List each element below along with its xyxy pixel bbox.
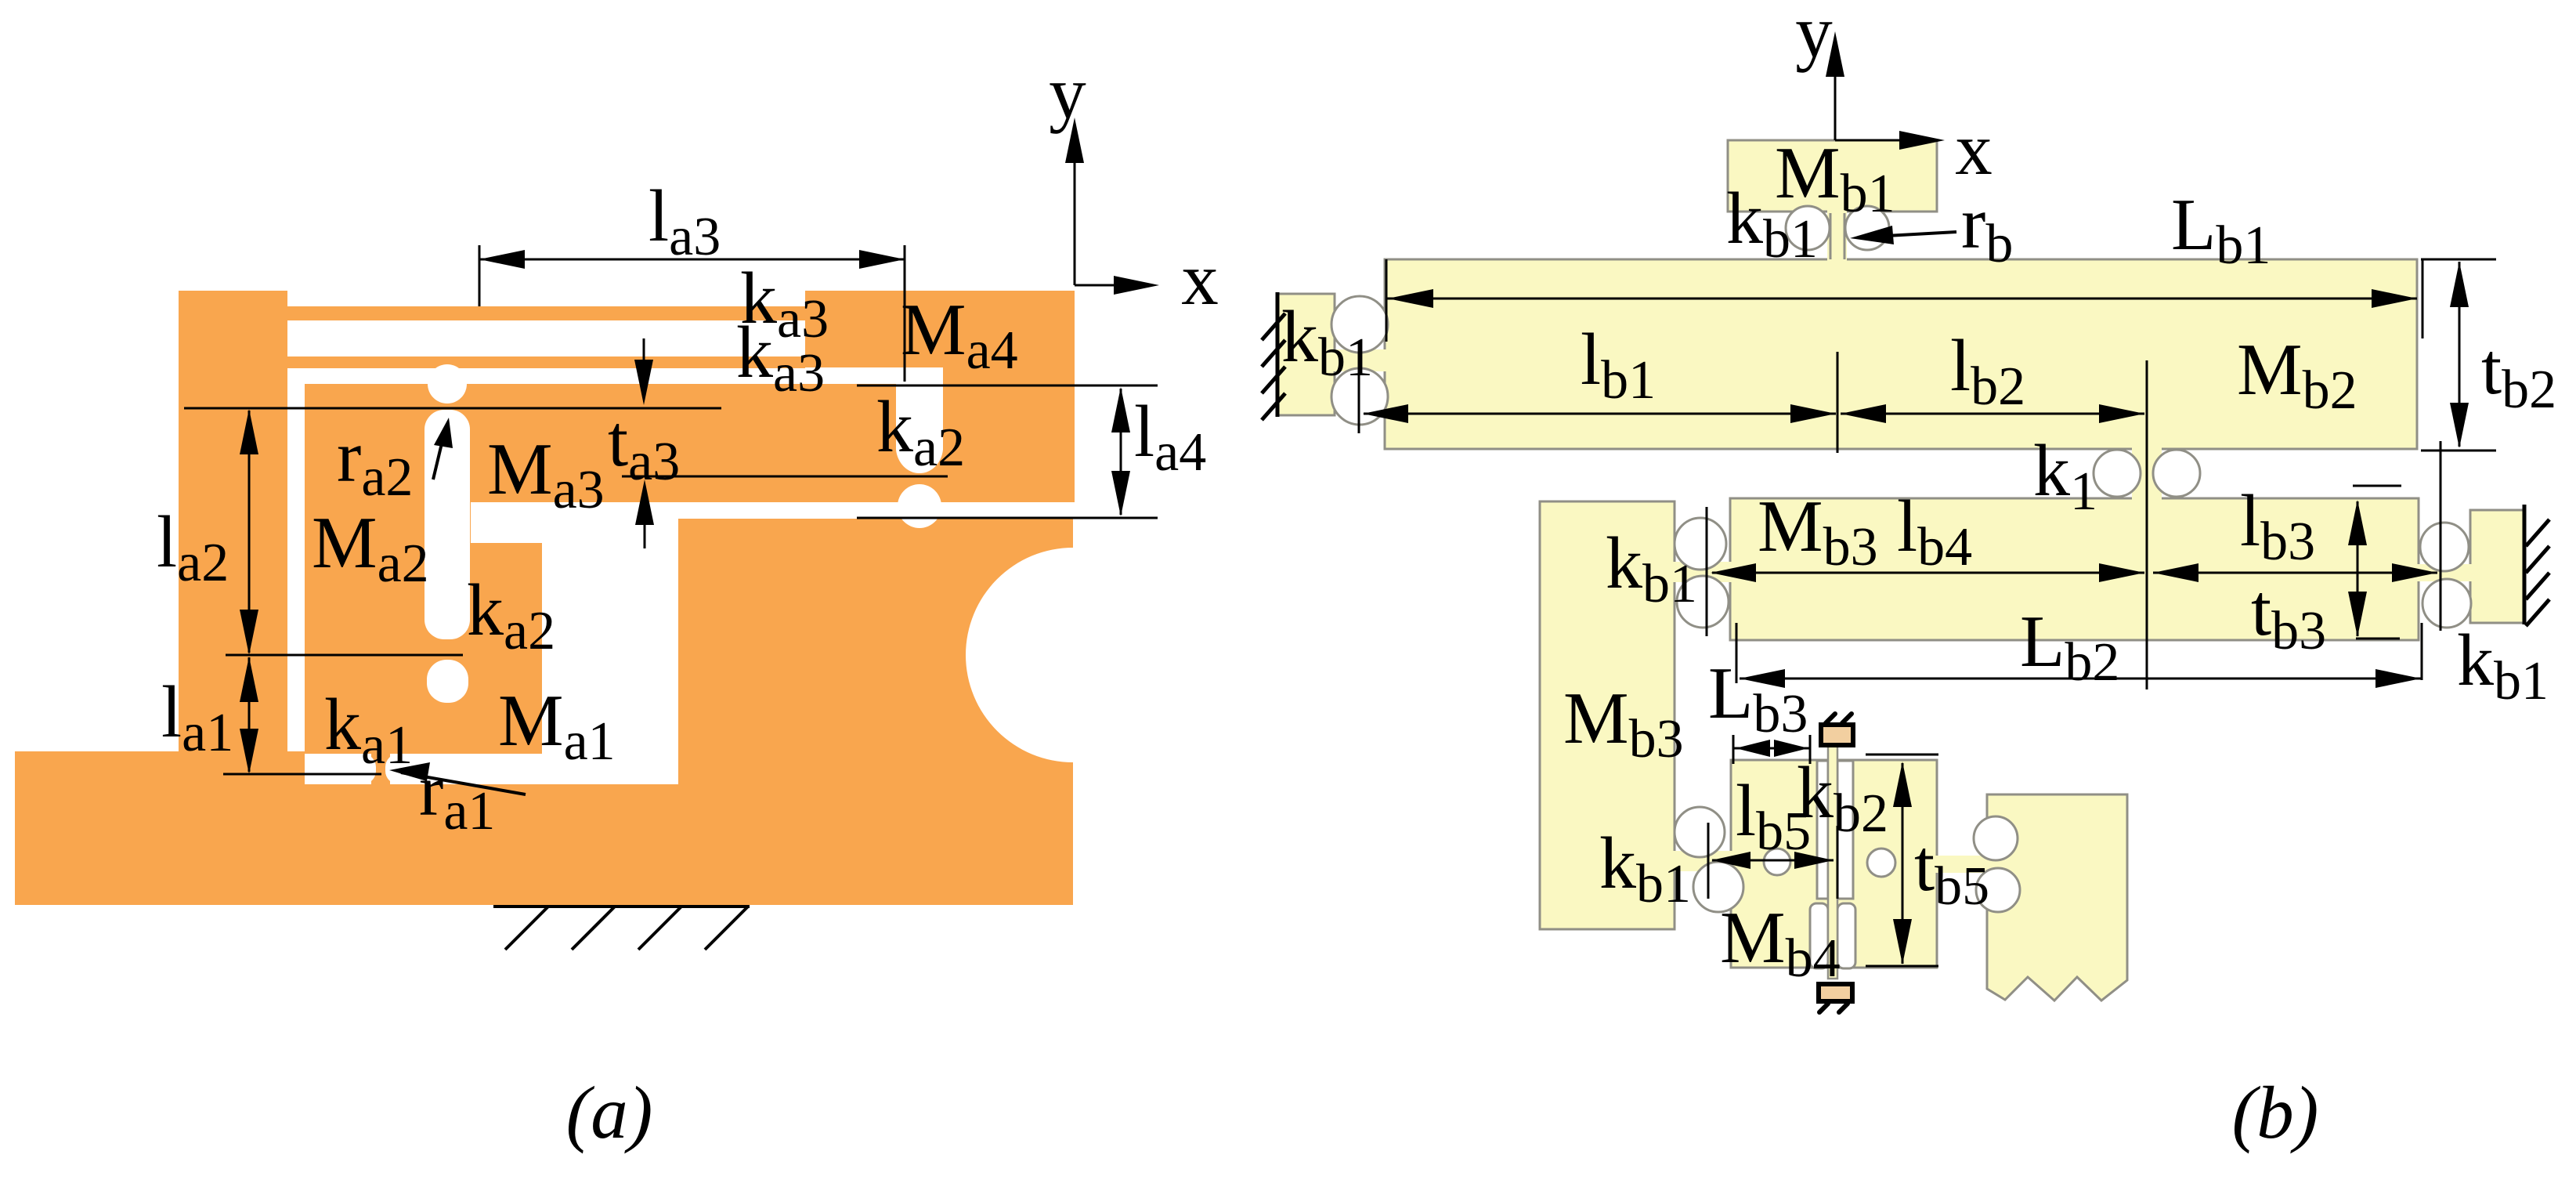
dimension t_b5 xyxy=(1866,754,1938,756)
mass M_a4 right leg xyxy=(943,367,1075,502)
left fixed bar (ground post) xyxy=(179,291,287,786)
flexure k_a2 upper bump circle xyxy=(898,484,941,528)
neck beam to right anchor (k_b1) xyxy=(2415,564,2473,581)
lower blocks M_b4 / t_b5 xyxy=(1731,760,1937,968)
fillet circles column-block neck xyxy=(1675,807,1725,857)
fillet circles column-beam neck xyxy=(1675,518,1726,570)
leaf spring k_a3 upper strip xyxy=(287,306,805,320)
fillet circles right anchor neck xyxy=(2420,523,2469,571)
lower beam M_b3 xyxy=(1730,498,2419,640)
right fixed anchor xyxy=(2470,510,2524,623)
neck column to block M_b4 (k_b1) xyxy=(1671,851,1734,871)
neck k_1 between beams xyxy=(2132,446,2162,501)
dimension t_a3 xyxy=(643,338,645,396)
gap above mass M_a1 column xyxy=(471,519,542,543)
svg-text:y: y xyxy=(1795,0,1833,73)
flexure k_a2 lower stadium slot xyxy=(427,660,468,703)
dimension t_b2 xyxy=(2421,259,2496,261)
svg-text:x: x xyxy=(1955,107,1993,190)
svg-text:y: y xyxy=(1049,51,1086,134)
mass M_b1 input block xyxy=(1728,140,1937,212)
flexure k_a1 neck xyxy=(371,749,390,788)
dimension L_b2 xyxy=(1740,678,2421,680)
left anchor ground hatching xyxy=(1276,292,1280,417)
dimension l_a2 xyxy=(248,411,251,653)
dimension l_b2 xyxy=(1841,413,2144,415)
beam mass M_b2 xyxy=(1385,259,2417,449)
neck column to lower beam (k_b1) xyxy=(1671,562,1733,582)
dimension l_a1 xyxy=(248,657,251,772)
ground right block xyxy=(678,519,1073,784)
dimension l_a3 xyxy=(479,259,905,261)
zigzag torn block xyxy=(1987,794,2127,1001)
combined block M_a2 / M_a3 / M_a1 xyxy=(305,384,943,754)
flexure k_a1 right slot xyxy=(385,754,548,784)
dimension l_a4 xyxy=(857,385,1158,387)
coordinate axes of figure (a) xyxy=(1074,133,1076,285)
leaf spring k_b2 xyxy=(1828,740,1837,979)
svg-text:(b): (b) xyxy=(2232,1071,2319,1154)
ground hatching under base xyxy=(493,905,750,908)
neck t_b5 block to zigzag block xyxy=(1934,856,1993,873)
ground base left raised step xyxy=(15,751,305,787)
gap under beam M_a3 xyxy=(471,502,1075,519)
gap right of leaf k_b2 xyxy=(1837,761,1853,899)
big white notch between M_a1 and ground right block xyxy=(542,519,678,784)
coordinate axes of figure (b) xyxy=(1834,45,1837,140)
dimension L_b1 xyxy=(1386,298,2417,300)
actuator box upper xyxy=(1821,725,1853,745)
lower slot left of leaf xyxy=(1810,903,1828,968)
dimension t_b3 xyxy=(2353,485,2401,487)
neck left anchor to beam (k_b1) xyxy=(1331,349,1388,371)
flexure r_a2 semicircle bite xyxy=(428,364,467,404)
flexure k_a1 left gap xyxy=(305,754,376,784)
left fixed anchor xyxy=(1278,294,1335,415)
svg-text:(a): (a) xyxy=(566,1071,653,1154)
dimension l_b3 xyxy=(2153,572,2437,574)
hole in block t_b5 xyxy=(1867,849,1895,877)
dimension L_b3 xyxy=(1734,747,1809,750)
upper-right slot between M_a3 and M_a4 leg xyxy=(896,367,943,473)
svg-text:x: x xyxy=(1181,237,1219,320)
fillet circles M_b1 neck xyxy=(1786,206,1830,250)
gap left of leaf k_b2 xyxy=(1817,761,1828,899)
mass M_a4 top band xyxy=(805,291,1075,367)
vertical slot between M_a2 and M_a3/M_a1 xyxy=(425,410,470,639)
half-circle notch in ground right block xyxy=(966,548,1180,762)
actuator box lower xyxy=(1819,984,1852,1001)
fillet circles left anchor neck xyxy=(1331,296,1388,353)
right anchor ground hatching xyxy=(2523,505,2527,624)
fillet circles k_1 neck xyxy=(2094,450,2141,497)
leaf spring k_a3 lower strip xyxy=(287,356,805,368)
dimension l_b5 xyxy=(1712,859,1834,862)
hole in block M_b4 xyxy=(1764,849,1790,875)
fillet circles t_b5-zigzag neck xyxy=(1974,816,2018,860)
dimension l_b4 xyxy=(1712,572,2144,574)
neck M_b1 to beam xyxy=(1827,208,1847,261)
dimension l_b1 xyxy=(1364,413,1836,415)
column mass M_b3 xyxy=(1540,501,1675,929)
lower slot right of leaf xyxy=(1837,903,1855,968)
ground base M_a base slab xyxy=(15,784,1073,905)
